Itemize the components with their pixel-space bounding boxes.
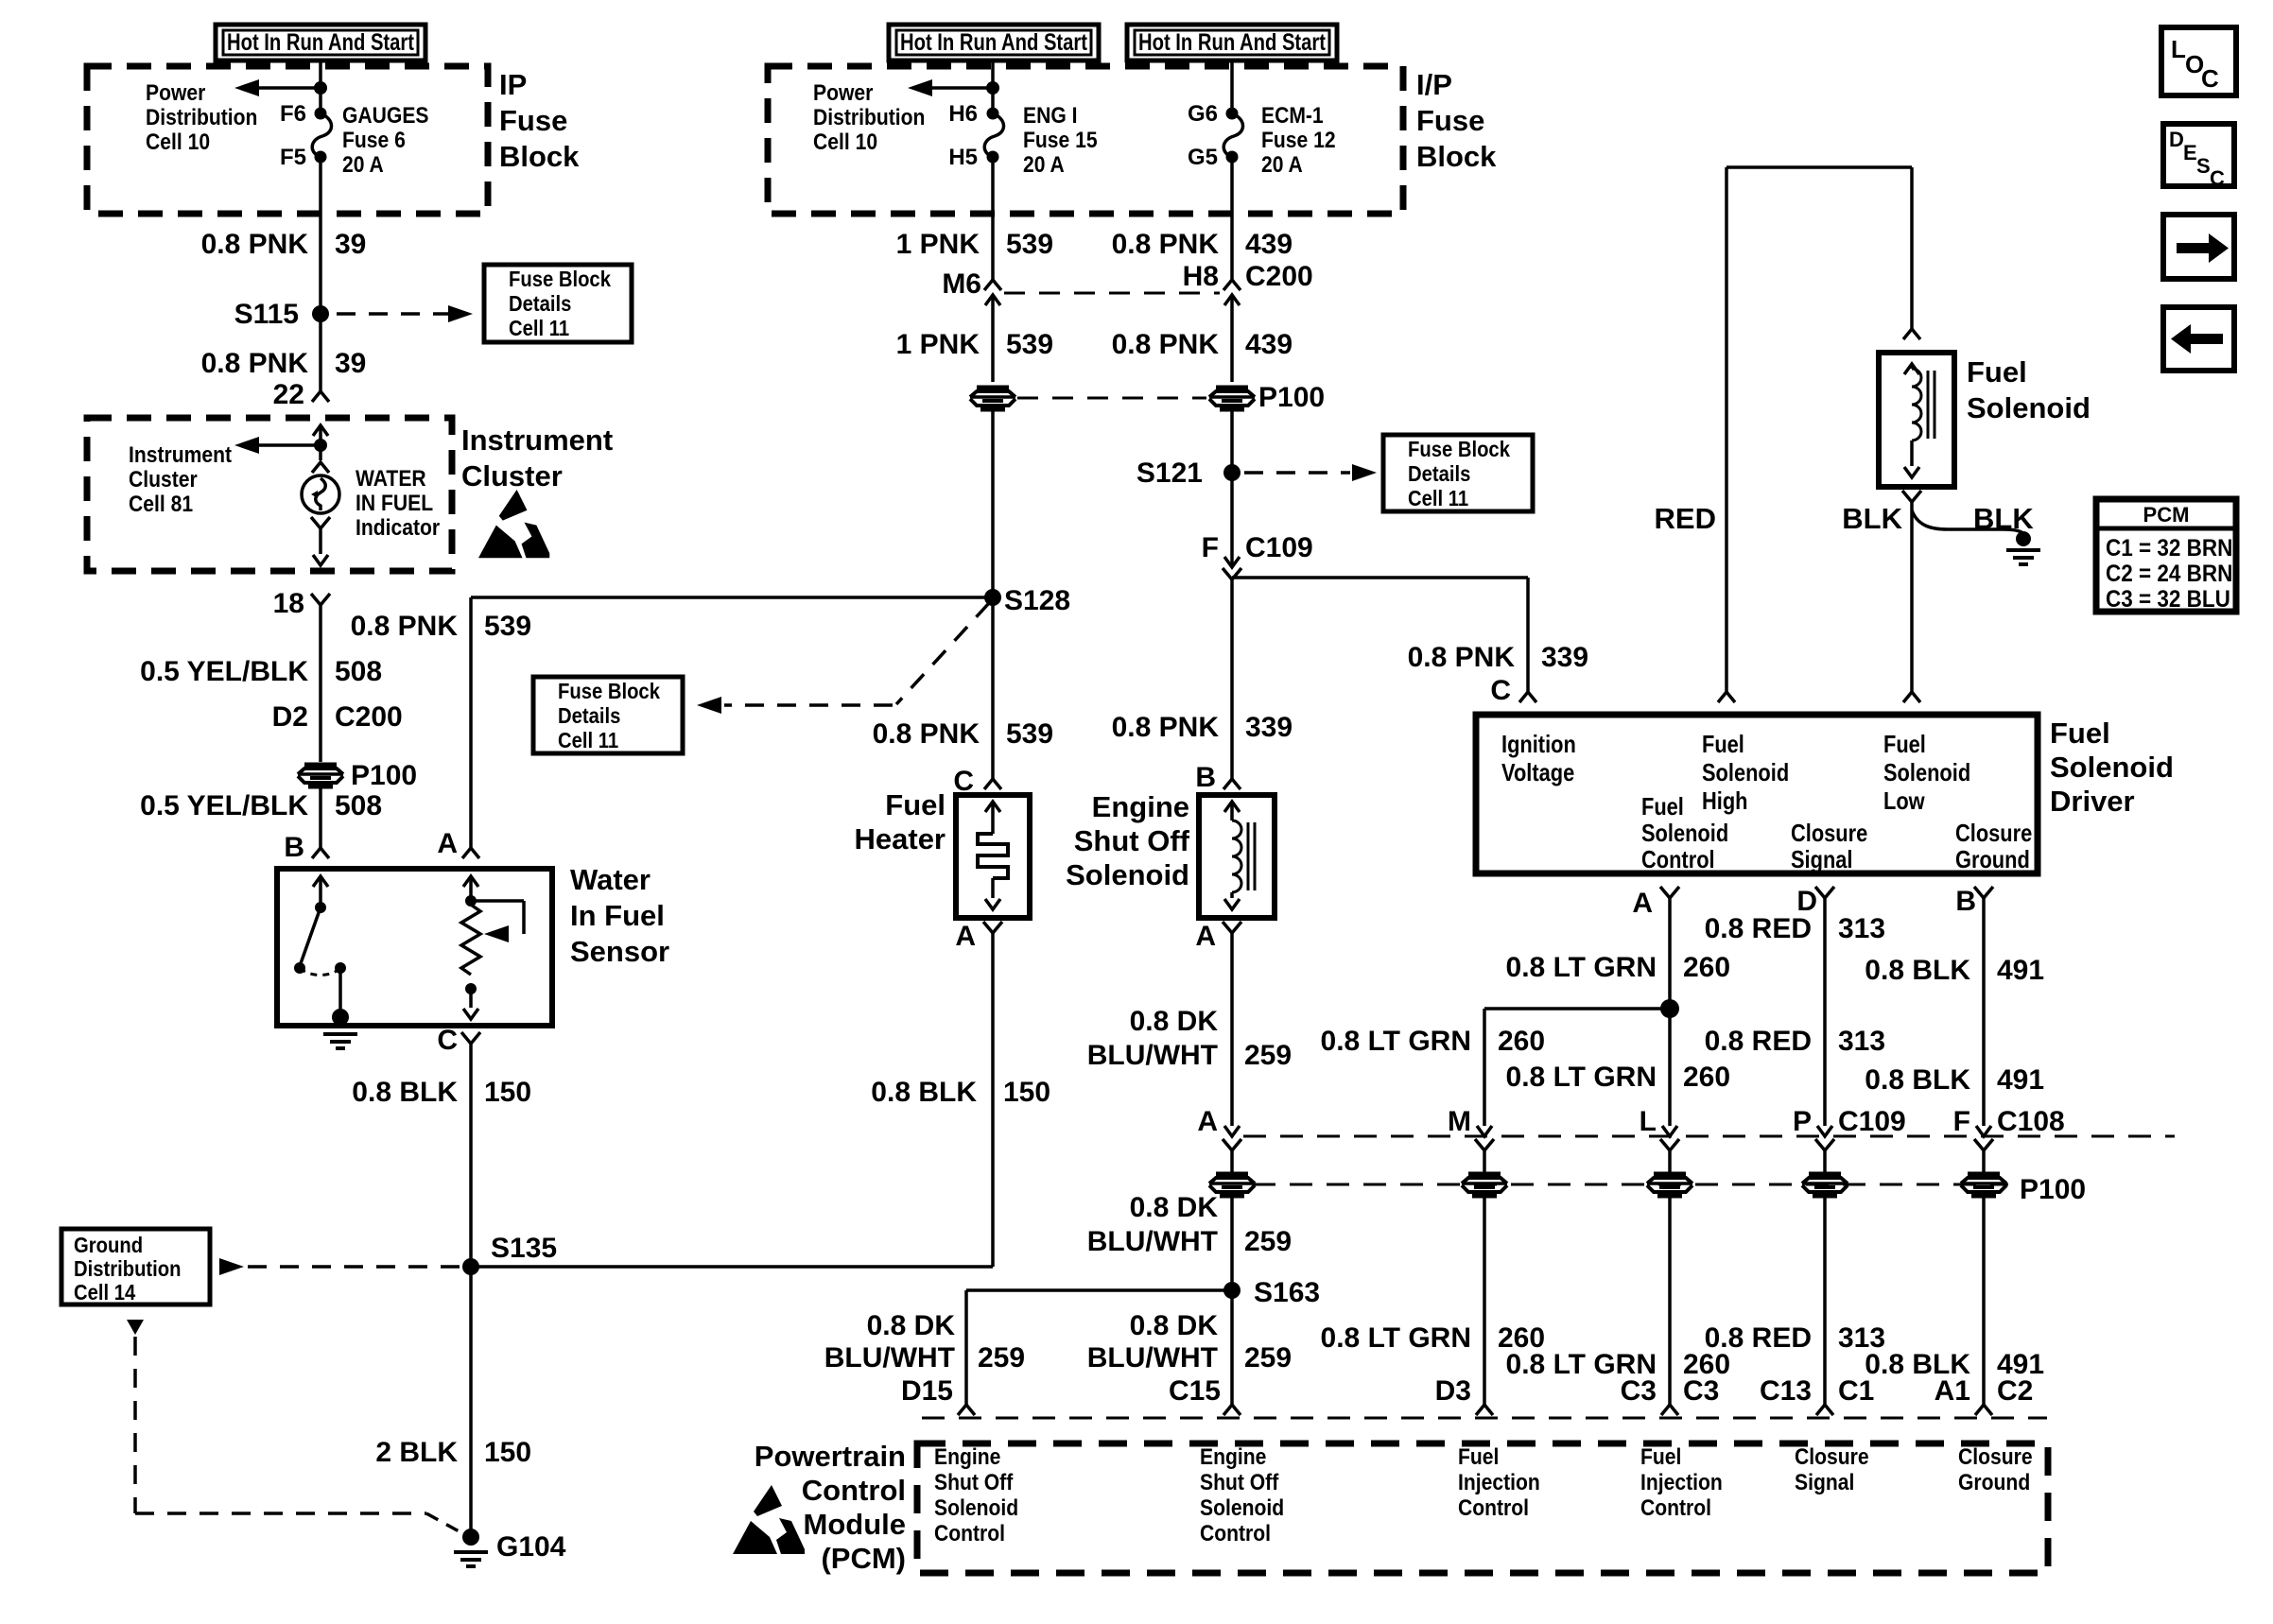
- svg-text:Low: Low: [1883, 787, 1925, 815]
- svg-text:C200: C200: [1245, 261, 1313, 292]
- svg-text:0.8 RED: 0.8 RED: [1705, 1026, 1812, 1057]
- svg-text:S115: S115: [234, 299, 299, 330]
- svg-text:Distribution: Distribution: [146, 105, 257, 130]
- svg-text:Engine: Engine: [1092, 790, 1189, 823]
- svg-text:Fuel: Fuel: [1883, 731, 1926, 758]
- svg-text:Closure: Closure: [1791, 820, 1867, 847]
- svg-text:39: 39: [335, 348, 366, 379]
- svg-text:High: High: [1702, 787, 1748, 815]
- svg-text:ENG I: ENG I: [1023, 103, 1077, 129]
- svg-text:Shut Off: Shut Off: [1200, 1470, 1279, 1495]
- svg-text:S128: S128: [1004, 585, 1070, 616]
- svg-text:Details: Details: [558, 703, 620, 729]
- svg-text:(PCM): (PCM): [821, 1542, 906, 1575]
- svg-text:C1 = 32 BRN: C1 = 32 BRN: [2106, 535, 2232, 561]
- svg-text:RED: RED: [1655, 502, 1716, 535]
- svg-text:508: 508: [335, 790, 382, 821]
- svg-text:259: 259: [1244, 1226, 1292, 1257]
- svg-text:Fuel: Fuel: [885, 788, 946, 821]
- svg-text:F5: F5: [280, 145, 306, 170]
- svg-text:Hot In Run And Start: Hot In Run And Start: [1138, 29, 1327, 56]
- svg-text:Solenoid: Solenoid: [1066, 858, 1189, 891]
- svg-text:0.8 LT GRN: 0.8 LT GRN: [1506, 1062, 1657, 1093]
- svg-text:A: A: [1632, 888, 1653, 919]
- svg-text:Hot In Run And Start: Hot In Run And Start: [900, 29, 1088, 56]
- svg-text:Indicator: Indicator: [356, 515, 440, 541]
- svg-text:439: 439: [1245, 329, 1293, 360]
- svg-text:0.8 PNK: 0.8 PNK: [1112, 712, 1220, 743]
- svg-text:Power: Power: [813, 80, 874, 106]
- svg-text:Fuse: Fuse: [499, 104, 567, 137]
- svg-text:Cluster: Cluster: [461, 459, 563, 492]
- svg-text:C109: C109: [1245, 532, 1313, 563]
- svg-text:Cell 10: Cell 10: [813, 130, 877, 155]
- svg-text:150: 150: [1003, 1077, 1050, 1108]
- svg-text:0.8 LT GRN: 0.8 LT GRN: [1506, 952, 1657, 983]
- svg-text:439: 439: [1245, 229, 1293, 260]
- svg-text:Shut Off: Shut Off: [1074, 824, 1190, 857]
- svg-text:BLU/WHT: BLU/WHT: [1087, 1040, 1218, 1071]
- svg-text:0.8 RED: 0.8 RED: [1705, 913, 1812, 944]
- svg-text:Closure: Closure: [1955, 820, 2032, 847]
- svg-text:C: C: [1490, 675, 1511, 706]
- svg-text:Hot In Run And Start: Hot In Run And Start: [227, 29, 415, 56]
- svg-text:Ground: Ground: [74, 1233, 143, 1258]
- svg-text:G104: G104: [496, 1531, 566, 1563]
- svg-text:0.8 BLK: 0.8 BLK: [1865, 955, 1970, 986]
- svg-text:0.8 DK: 0.8 DK: [867, 1310, 956, 1341]
- svg-text:BLK: BLK: [1973, 502, 2034, 535]
- svg-text:Heater: Heater: [855, 822, 946, 855]
- svg-text:D: D: [2169, 128, 2184, 151]
- svg-text:A: A: [955, 921, 976, 952]
- svg-text:Closure: Closure: [1958, 1444, 2033, 1470]
- svg-text:539: 539: [484, 611, 531, 642]
- svg-text:Distribution: Distribution: [74, 1256, 182, 1282]
- svg-text:313: 313: [1838, 1026, 1885, 1057]
- svg-text:20 A: 20 A: [1023, 152, 1065, 178]
- svg-text:Powertrain: Powertrain: [755, 1440, 906, 1473]
- svg-text:0.8 BLK: 0.8 BLK: [352, 1077, 458, 1108]
- svg-text:C108: C108: [1997, 1106, 2065, 1137]
- svg-text:Solenoid: Solenoid: [1967, 391, 2091, 424]
- svg-text:491: 491: [1997, 1064, 2044, 1096]
- svg-text:0.8 PNK: 0.8 PNK: [1112, 329, 1220, 360]
- svg-text:C3 = 32 BLU: C3 = 32 BLU: [2106, 586, 2230, 613]
- svg-text:Fuse 15: Fuse 15: [1023, 128, 1098, 153]
- svg-text:A: A: [437, 828, 458, 859]
- svg-text:E: E: [2183, 141, 2197, 164]
- svg-text:Ignition: Ignition: [1501, 731, 1576, 758]
- svg-text:S163: S163: [1254, 1277, 1320, 1308]
- svg-text:C3: C3: [1683, 1375, 1719, 1407]
- svg-text:Solenoid: Solenoid: [1200, 1495, 1284, 1521]
- svg-text:C: C: [437, 1025, 458, 1056]
- svg-text:In Fuel: In Fuel: [570, 899, 665, 932]
- svg-text:P100: P100: [1258, 382, 1325, 413]
- svg-text:0.8 PNK: 0.8 PNK: [201, 229, 309, 260]
- svg-text:Fuel: Fuel: [1702, 731, 1744, 758]
- svg-text:Closure: Closure: [1795, 1444, 1869, 1470]
- svg-text:S135: S135: [491, 1233, 557, 1264]
- svg-text:Cell 81: Cell 81: [129, 492, 193, 517]
- svg-text:Control: Control: [1200, 1521, 1271, 1546]
- svg-text:M: M: [1448, 1106, 1471, 1137]
- svg-text:D3: D3: [1435, 1375, 1471, 1407]
- svg-text:IP: IP: [499, 68, 527, 101]
- svg-text:Solenoid: Solenoid: [934, 1495, 1018, 1521]
- svg-text:Power: Power: [146, 80, 206, 106]
- svg-text:259: 259: [1244, 1342, 1292, 1373]
- svg-text:IN FUEL: IN FUEL: [356, 491, 433, 516]
- svg-text:Fuse Block: Fuse Block: [1408, 437, 1511, 462]
- svg-text:0.8 BLK: 0.8 BLK: [1865, 1064, 1970, 1096]
- svg-text:Fuse Block: Fuse Block: [558, 679, 661, 704]
- svg-text:F6: F6: [280, 101, 306, 127]
- svg-text:539: 539: [1006, 329, 1053, 360]
- svg-text:C2 = 24 BRN: C2 = 24 BRN: [2106, 561, 2232, 587]
- svg-text:Fuel: Fuel: [1640, 1444, 1681, 1470]
- svg-text:PCM: PCM: [2143, 503, 2190, 527]
- svg-text:L: L: [2171, 35, 2186, 63]
- svg-text:Solenoid: Solenoid: [2050, 751, 2174, 784]
- svg-text:Injection: Injection: [1458, 1470, 1540, 1495]
- svg-text:Ground: Ground: [1958, 1470, 2030, 1495]
- svg-text:C2: C2: [1997, 1375, 2033, 1407]
- svg-text:P100: P100: [2020, 1174, 2086, 1205]
- svg-text:P100: P100: [351, 760, 417, 791]
- svg-text:B: B: [1955, 886, 1976, 917]
- svg-text:C1: C1: [1838, 1375, 1874, 1407]
- svg-text:C: C: [2201, 64, 2219, 93]
- svg-text:A: A: [1197, 1106, 1218, 1137]
- svg-text:Control: Control: [1641, 846, 1715, 873]
- svg-text:Signal: Signal: [1791, 846, 1853, 873]
- svg-text:0.8 PNK: 0.8 PNK: [873, 718, 980, 750]
- svg-text:Cluster: Cluster: [129, 467, 198, 492]
- svg-text:BLK: BLK: [1842, 502, 1902, 535]
- svg-text:Solenoid: Solenoid: [1641, 820, 1728, 847]
- svg-text:Signal: Signal: [1795, 1470, 1854, 1495]
- svg-text:1 PNK: 1 PNK: [896, 329, 980, 360]
- svg-text:C200: C200: [335, 701, 403, 733]
- svg-text:0.5 YEL/BLK: 0.5 YEL/BLK: [140, 656, 308, 687]
- svg-text:Fuse 12: Fuse 12: [1261, 128, 1336, 153]
- svg-text:260: 260: [1683, 952, 1730, 983]
- svg-text:H5: H5: [948, 145, 978, 170]
- svg-text:39: 39: [335, 229, 366, 260]
- svg-text:B: B: [284, 832, 304, 863]
- svg-text:M6: M6: [942, 268, 981, 300]
- svg-text:18: 18: [273, 588, 304, 619]
- svg-text:150: 150: [484, 1077, 531, 1108]
- svg-text:0.8 DK: 0.8 DK: [1130, 1310, 1219, 1341]
- svg-text:260: 260: [1498, 1026, 1545, 1057]
- svg-text:Solenoid: Solenoid: [1883, 759, 1970, 786]
- svg-text:Driver: Driver: [2050, 785, 2135, 818]
- svg-text:Control: Control: [1458, 1495, 1529, 1521]
- svg-text:0.8 LT GRN: 0.8 LT GRN: [1321, 1322, 1471, 1354]
- svg-text:Engine: Engine: [934, 1444, 1000, 1470]
- svg-text:Fuse: Fuse: [1416, 104, 1484, 137]
- svg-text:P: P: [1793, 1106, 1812, 1137]
- svg-text:Details: Details: [1408, 461, 1470, 487]
- svg-text:Cell 11: Cell 11: [1408, 486, 1468, 511]
- svg-text:D2: D2: [272, 701, 308, 733]
- svg-text:Fuel: Fuel: [1967, 355, 2027, 389]
- svg-text:0.5 YEL/BLK: 0.5 YEL/BLK: [140, 790, 308, 821]
- svg-text:0.8 LT GRN: 0.8 LT GRN: [1321, 1026, 1471, 1057]
- svg-text:339: 339: [1541, 642, 1588, 673]
- svg-text:Block: Block: [1416, 140, 1497, 173]
- svg-text:259: 259: [1244, 1040, 1292, 1071]
- svg-text:Fuse 6: Fuse 6: [342, 128, 406, 153]
- svg-text:ECM-1: ECM-1: [1261, 103, 1324, 129]
- svg-text:Sensor: Sensor: [570, 935, 669, 968]
- svg-text:539: 539: [1006, 229, 1053, 260]
- svg-text:I/P: I/P: [1416, 68, 1452, 101]
- svg-text:Cell 14: Cell 14: [74, 1280, 135, 1305]
- svg-text:L: L: [1640, 1106, 1657, 1137]
- svg-text:G6: G6: [1188, 101, 1218, 127]
- svg-text:B: B: [1195, 762, 1216, 793]
- svg-text:Fuse Block: Fuse Block: [509, 267, 612, 292]
- svg-text:H6: H6: [948, 101, 978, 127]
- svg-text:Shut Off: Shut Off: [934, 1470, 1014, 1495]
- svg-text:22: 22: [273, 379, 304, 410]
- svg-text:Water: Water: [570, 863, 651, 896]
- svg-text:Ground: Ground: [1955, 846, 2030, 873]
- svg-text:BLU/WHT: BLU/WHT: [1087, 1226, 1218, 1257]
- svg-text:Voltage: Voltage: [1501, 759, 1574, 786]
- svg-text:0.8 BLK: 0.8 BLK: [871, 1077, 977, 1108]
- svg-text:150: 150: [484, 1437, 531, 1468]
- svg-text:F: F: [1953, 1106, 1970, 1137]
- svg-text:508: 508: [335, 656, 382, 687]
- svg-text:Details: Details: [509, 291, 571, 317]
- svg-text:S: S: [2196, 154, 2211, 178]
- svg-text:539: 539: [1006, 718, 1053, 750]
- svg-text:0.8 DK: 0.8 DK: [1130, 1006, 1219, 1037]
- svg-text:A1: A1: [1935, 1375, 1970, 1407]
- svg-text:Instrument: Instrument: [461, 423, 613, 457]
- svg-text:Instrument: Instrument: [129, 442, 233, 468]
- svg-text:Solenoid: Solenoid: [1702, 759, 1789, 786]
- svg-text:Control: Control: [1640, 1495, 1711, 1521]
- svg-text:Block: Block: [499, 140, 580, 173]
- svg-text:C109: C109: [1838, 1106, 1906, 1137]
- svg-text:WATER: WATER: [356, 466, 426, 492]
- svg-text:491: 491: [1997, 955, 2044, 986]
- svg-text:BLU/WHT: BLU/WHT: [824, 1342, 955, 1373]
- svg-text:BLU/WHT: BLU/WHT: [1087, 1342, 1218, 1373]
- svg-text:Cell 11: Cell 11: [558, 728, 618, 753]
- svg-text:S121: S121: [1136, 458, 1203, 489]
- svg-text:0.8 DK: 0.8 DK: [1130, 1192, 1219, 1223]
- svg-text:2 BLK: 2 BLK: [375, 1437, 458, 1468]
- svg-text:1 PNK: 1 PNK: [896, 229, 980, 260]
- svg-text:0.8 PNK: 0.8 PNK: [1408, 642, 1516, 673]
- svg-text:Module: Module: [804, 1508, 907, 1541]
- svg-text:Injection: Injection: [1640, 1470, 1723, 1495]
- svg-text:C3: C3: [1621, 1375, 1657, 1407]
- svg-text:C13: C13: [1760, 1375, 1812, 1407]
- svg-text:GAUGES: GAUGES: [342, 103, 428, 129]
- svg-text:C15: C15: [1169, 1375, 1221, 1407]
- svg-text:D15: D15: [901, 1375, 953, 1407]
- svg-text:0.8 PNK: 0.8 PNK: [1112, 229, 1220, 260]
- svg-text:259: 259: [978, 1342, 1025, 1373]
- svg-text:20 A: 20 A: [342, 152, 384, 178]
- svg-text:Cell 10: Cell 10: [146, 130, 210, 155]
- svg-text:Fuel: Fuel: [1458, 1444, 1499, 1470]
- svg-text:Fuel: Fuel: [1641, 793, 1684, 821]
- svg-text:0.8 PNK: 0.8 PNK: [351, 611, 459, 642]
- svg-text:Cell 11: Cell 11: [509, 316, 569, 341]
- svg-text:H8: H8: [1183, 261, 1219, 292]
- svg-text:Distribution: Distribution: [813, 105, 925, 130]
- svg-text:260: 260: [1683, 1062, 1730, 1093]
- svg-text:20 A: 20 A: [1261, 152, 1303, 178]
- svg-text:Control: Control: [802, 1474, 906, 1507]
- svg-text:A: A: [1195, 921, 1216, 952]
- svg-text:339: 339: [1245, 712, 1293, 743]
- svg-text:C: C: [2210, 166, 2225, 190]
- svg-text:Control: Control: [934, 1521, 1005, 1546]
- svg-text:F: F: [1202, 532, 1219, 563]
- svg-text:G5: G5: [1188, 145, 1218, 170]
- svg-text:Engine: Engine: [1200, 1444, 1266, 1470]
- svg-text:0.8 PNK: 0.8 PNK: [201, 348, 309, 379]
- svg-text:313: 313: [1838, 913, 1885, 944]
- svg-text:Fuel: Fuel: [2050, 717, 2110, 750]
